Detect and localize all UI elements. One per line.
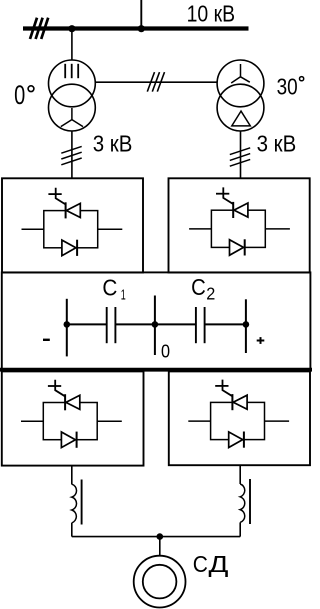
junction dot minus rail (64, 321, 71, 328)
three-phase marks on T2 output (230, 148, 250, 166)
converter arm 4 (thyristor + diode) (188, 380, 289, 448)
zero rail bar (154, 296, 156, 356)
rectifier box 2 (169, 178, 310, 272)
svg-text:10 кВ: 10 кВ (187, 1, 235, 27)
motor feeder wire (72, 536, 240, 538)
T1 primary winding marks ||| (65, 64, 78, 78)
transformer T1 primary circle (49, 60, 96, 107)
label plus (257, 337, 265, 344)
minus rail bar (66, 299, 68, 357)
wire box 4 to reactor L2 (239, 465, 241, 484)
T1 secondary star symbol (61, 108, 83, 127)
svg-text:1: 1 (121, 286, 126, 303)
transformer T2 primary circle (217, 60, 264, 107)
motor M inner circle (143, 565, 177, 599)
three-phase marks on T1 output (61, 146, 81, 164)
svg-text:С: С (193, 551, 208, 577)
plus rail bar (245, 299, 247, 353)
svg-text:C: C (191, 274, 206, 301)
capacitor C1 right plate (114, 307, 116, 343)
svg-text:30: 30 (277, 74, 298, 100)
reactor L1 core bar (81, 480, 83, 525)
svg-text:Д: Д (209, 551, 229, 577)
svg-text:2: 2 (206, 284, 215, 303)
reactor L2 winding (240, 484, 245, 522)
inverter box 4 (169, 371, 310, 465)
three-phase marks on bus (30, 18, 48, 39)
junction dot bus/T1 (68, 25, 75, 32)
wire to motor (159, 537, 161, 556)
inverter box 3 (2, 371, 144, 465)
wire box 3 to reactor L1 (71, 466, 73, 485)
svg-text:C: C (102, 274, 117, 300)
svg-text:3 кВ: 3 кВ (257, 130, 297, 157)
motor M outer circle (134, 556, 186, 608)
capacitor box thick bottom edge (0, 368, 312, 372)
capacitor C2 right plate (204, 307, 206, 343)
junction dot bus/feed (138, 25, 145, 32)
wire T2 to box 2 (240, 131, 242, 178)
wire bus to T1 (71, 29, 73, 61)
wire L2 down (239, 522, 241, 536)
T2 secondary delta symbol (232, 111, 251, 126)
svg-text:3 кВ: 3 кВ (93, 130, 133, 157)
supply feed wire (140, 0, 142, 29)
tie wire between transformers (95, 81, 217, 83)
bus 10 kV (23, 26, 249, 30)
capacitor C1 left plate (106, 307, 108, 343)
transformer T2 secondary circle (217, 84, 264, 131)
wire L1 down (71, 523, 73, 537)
DC link wire right segment (205, 323, 246, 325)
converter arm 3 (thyristor + diode) (21, 380, 122, 448)
wire T1 to box 1 (71, 131, 73, 178)
converter arm 2 (thyristor + diode) (189, 187, 290, 255)
converter arm 1 (thyristor + diode) (22, 188, 123, 256)
junction dot motor node (157, 533, 164, 540)
T2 primary wye symbol (231, 64, 250, 83)
reactor L1 winding (72, 484, 77, 523)
svg-text:0: 0 (14, 80, 25, 109)
DC link wire middle segment (115, 323, 195, 325)
rectifier box 1 (2, 178, 143, 272)
capacitor filter box (2, 272, 311, 369)
capacitor C2 left plate (195, 307, 197, 343)
junction dot zero rail (152, 321, 159, 328)
DC link wire left segment (67, 323, 107, 325)
svg-text:0: 0 (161, 340, 170, 361)
junction dot plus rail (243, 321, 250, 328)
three-phase marks on tie wire (147, 72, 164, 92)
reactor L2 core bar (249, 479, 251, 524)
label minus (43, 339, 50, 341)
transformer T1 secondary circle (49, 84, 96, 131)
